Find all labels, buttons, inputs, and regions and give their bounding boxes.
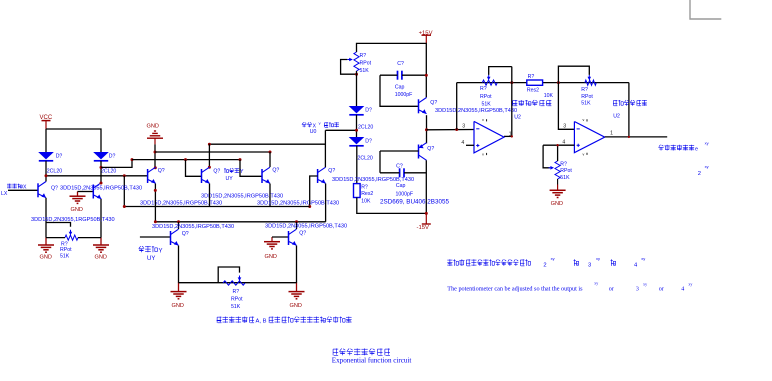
svg-text:v: v <box>482 153 484 157</box>
label R1 <box>61 242 68 248</box>
junction <box>355 129 358 132</box>
label GND g3 <box>71 207 83 213</box>
svg-text:Y: Y <box>240 169 244 175</box>
svg-text:v: v <box>583 118 585 122</box>
junction <box>45 174 48 177</box>
svg-text:GND: GND <box>551 201 563 207</box>
label LX <box>1 191 8 197</box>
junction <box>511 135 513 137</box>
svg-text:RPot: RPot <box>560 168 572 174</box>
wire R4 to -15V rail <box>357 198 427 214</box>
svg-text:v: v <box>583 153 585 157</box>
transistor LB Q7 <box>171 229 179 245</box>
wire Q6 base riser <box>310 176 318 207</box>
part row Q6 <box>257 201 339 207</box>
label D3 value <box>358 125 373 131</box>
svg-text:R?: R? <box>560 162 567 168</box>
label Q6 <box>328 168 335 174</box>
label R1 type <box>60 247 72 253</box>
label R8 type <box>560 168 572 174</box>
wire U3 pin4 <box>543 144 574 146</box>
title chinese <box>333 348 390 355</box>
label D1 <box>56 153 63 159</box>
label U2 pin1 <box>509 131 512 137</box>
svg-text:VCC: VCC <box>40 115 53 121</box>
svg-text:R?: R? <box>233 289 240 295</box>
wire diode D1 cathode to Q1 collector <box>45 161 47 182</box>
svg-text:R?: R? <box>480 86 487 92</box>
label R5 type <box>480 94 492 100</box>
label U0 <box>310 129 317 135</box>
diode D1 2CL20 <box>38 152 54 161</box>
op-amp U2 <box>474 118 504 157</box>
capacitor C1 1000pF <box>398 71 402 80</box>
wire to Q5 collector <box>269 152 271 167</box>
transistor RB Q8 <box>289 229 297 245</box>
svg-text:xy: xy <box>705 140 709 145</box>
wire LB emitter <box>178 246 180 284</box>
svg-text:Q?: Q? <box>213 168 220 174</box>
label D2 value <box>101 169 116 175</box>
svg-text:Cap: Cap <box>396 183 406 189</box>
wire antilog out to U2 <box>427 129 475 131</box>
wire U3 pin3 riser <box>558 83 574 130</box>
wire R7 wiper loop <box>558 66 589 82</box>
svg-text:GND: GND <box>172 303 184 309</box>
svg-text:R?: R? <box>360 53 367 59</box>
svg-text:RPot: RPot <box>581 94 593 100</box>
label input X <box>7 184 27 191</box>
svg-text:D?: D? <box>109 153 116 159</box>
potentiometer R8 51K <box>549 161 561 179</box>
label U2 ref <box>514 115 521 121</box>
svg-text:51K: 51K <box>360 68 370 74</box>
wire pushpull node <box>426 115 428 143</box>
wire node A rail y176 <box>46 175 148 177</box>
svg-text:D?: D? <box>365 138 372 144</box>
label D2 <box>109 153 116 159</box>
label R2 value <box>231 304 241 310</box>
ground GND g6 <box>171 283 187 299</box>
svg-text:RPot: RPot <box>60 247 72 253</box>
ground GND g3 base of Q2 <box>70 192 86 204</box>
frame corner <box>690 0 721 19</box>
wire U0 link <box>325 129 356 131</box>
label Q10 <box>427 146 434 152</box>
resistor R4 Res2 10K <box>354 184 361 198</box>
svg-text:RPot: RPot <box>231 297 243 303</box>
svg-text:xy: xy <box>596 256 600 261</box>
svg-text:GND: GND <box>40 255 52 261</box>
label R2 type <box>231 297 243 303</box>
junction <box>425 128 428 131</box>
svg-text:2CL20: 2CL20 <box>358 125 373 131</box>
svg-text:3: 3 <box>588 262 591 268</box>
svg-text:or: or <box>609 287 614 293</box>
label Q1 <box>51 185 58 191</box>
junction <box>123 174 126 177</box>
svg-text:xy: xy <box>551 256 555 261</box>
wire tap to Q4 base <box>186 160 202 177</box>
wire U3 output <box>605 136 668 138</box>
label GND g4 <box>147 123 159 129</box>
wire node C corner <box>209 143 325 145</box>
label C1 <box>397 61 404 67</box>
label R1 value <box>60 254 70 260</box>
junction <box>208 143 211 146</box>
svg-text:C?: C? <box>397 61 404 67</box>
label U2 pin4 <box>461 140 464 146</box>
wire rail2 y221.8 <box>155 221 325 223</box>
svg-text:2SD669, BU406,2B3055: 2SD669, BU406,2B3055 <box>380 199 449 206</box>
junction <box>123 205 126 208</box>
svg-text:1000pF: 1000pF <box>396 191 414 197</box>
svg-text:Q?: Q? <box>158 168 165 174</box>
wire C1 right lead <box>402 74 426 76</box>
svg-text:4: 4 <box>562 139 565 145</box>
transistor Q5 <box>262 167 270 183</box>
svg-text:3DD15D,2N3055,1RGP50B,T430: 3DD15D,2N3055,1RGP50B,T430 <box>31 217 115 223</box>
potentiometer R3 51K <box>347 52 359 71</box>
title english <box>332 357 412 365</box>
svg-text:2CL20: 2CL20 <box>101 169 116 175</box>
part row Q9 <box>435 108 517 114</box>
svg-text:Exponential function circuit: Exponential function circuit <box>332 357 412 365</box>
svg-text:D?: D? <box>365 107 372 113</box>
junction <box>269 151 272 154</box>
wire rail y152 <box>155 151 270 153</box>
wire RB base <box>272 236 289 238</box>
note line1 chinese <box>447 256 645 268</box>
power VCC <box>40 115 53 129</box>
note multiplier chinese <box>217 317 352 325</box>
diode D3 2CL20 <box>349 106 365 115</box>
junction Q3 collector <box>154 166 157 169</box>
ground GND g7 <box>289 283 305 299</box>
transistor Q3 <box>148 167 156 183</box>
wire to Q4 collector <box>208 144 210 167</box>
label U3 ref <box>613 114 620 120</box>
svg-text:51K: 51K <box>581 101 591 107</box>
wire Q6 emitter <box>325 184 327 222</box>
capacitor C2 1000pF <box>400 168 404 177</box>
junction <box>557 81 560 84</box>
label R7 value <box>581 101 591 107</box>
svg-text:LX: LX <box>1 191 8 197</box>
svg-text:Q?: Q? <box>299 231 306 237</box>
ground GND g8 <box>550 190 566 197</box>
svg-text:3: 3 <box>563 124 566 130</box>
potentiometer R1 51K <box>46 230 101 240</box>
wire R8 to GND <box>557 179 559 190</box>
svg-text:e: e <box>695 146 698 152</box>
svg-text:51K: 51K <box>231 304 241 310</box>
svg-text:xy: xy <box>643 282 647 287</box>
label input Y <box>224 168 244 175</box>
part row Q2 <box>31 217 115 223</box>
svg-text:1: 1 <box>509 131 512 137</box>
svg-text:Q?: Q? <box>272 168 279 174</box>
svg-text:3DD15D,2N3055,IRGP50B,T430: 3DD15D,2N3055,IRGP50B,T430 <box>265 224 347 230</box>
label LB <box>182 231 189 237</box>
svg-text:51K: 51K <box>60 254 70 260</box>
svg-text:RPot: RPot <box>480 94 492 100</box>
svg-text:xy: xy <box>705 164 709 169</box>
part row Q10 <box>380 199 449 206</box>
label UY lower <box>147 256 155 262</box>
part row RB <box>265 224 347 230</box>
op-amp U3 <box>574 118 604 156</box>
ground GND g5 base of RB <box>264 237 280 249</box>
svg-text:Q?: Q? <box>430 100 437 106</box>
label Q3 <box>158 168 165 174</box>
label C2 value <box>396 191 414 197</box>
label 2^xy <box>698 164 709 177</box>
power +15V <box>419 31 433 44</box>
label output result <box>658 140 708 152</box>
svg-text:2: 2 <box>698 171 701 177</box>
wire VCC rail <box>46 129 101 152</box>
wire pot R1 wiper tap <box>46 223 71 227</box>
svg-text:UY: UY <box>226 176 234 182</box>
junction <box>308 205 311 208</box>
label output X^Y <box>302 122 339 129</box>
wire diode D2 cathode to Q2 collector <box>100 161 102 183</box>
svg-text:3DD15D,2N3055,IRGP50B,T430: 3DD15D,2N3055,IRGP50B,T430 <box>435 108 517 114</box>
label D4 <box>365 138 372 144</box>
svg-text:3: 3 <box>462 124 465 130</box>
label R4 <box>361 185 368 191</box>
junction <box>154 189 157 192</box>
wire C2 left lead <box>380 172 400 174</box>
svg-text:2CL20: 2CL20 <box>47 169 62 175</box>
label R6 value <box>544 93 554 99</box>
wire Q6 collector riser <box>324 130 326 167</box>
note line2 english <box>447 281 692 293</box>
label D4 value <box>358 156 373 162</box>
svg-text:3: 3 <box>636 287 639 293</box>
label R6 type <box>527 88 539 94</box>
svg-text:Cap: Cap <box>395 85 405 91</box>
label RB <box>299 231 306 237</box>
label R6 <box>528 74 535 80</box>
label R5 <box>480 86 487 92</box>
label GND g1 <box>40 255 52 261</box>
part row LB <box>152 224 234 230</box>
svg-text:D?: D? <box>56 153 63 159</box>
wire RB emitter <box>296 246 298 284</box>
wire Q5 emitter <box>269 184 271 207</box>
svg-text:10K: 10K <box>361 198 371 204</box>
label R8 <box>560 162 567 168</box>
junction <box>131 158 134 161</box>
svg-text:or: or <box>659 287 664 293</box>
svg-text:GND: GND <box>290 303 302 309</box>
junction <box>100 166 103 169</box>
wire R5 wiper loop <box>489 67 512 75</box>
junction <box>154 151 157 154</box>
label C2 name <box>396 183 406 189</box>
wire C2 right lead <box>404 172 426 174</box>
ground GND g4 inverted <box>147 131 163 144</box>
potentiometer R7 51K <box>585 75 596 85</box>
svg-text:U2: U2 <box>613 114 620 120</box>
svg-text:2: 2 <box>543 262 546 268</box>
wire tap to Q5 base <box>240 160 262 177</box>
junction <box>184 158 187 161</box>
part row Q1 <box>60 186 142 192</box>
svg-text:R?: R? <box>528 74 535 80</box>
label input Y lower <box>139 246 163 255</box>
part row mid <box>332 177 414 183</box>
svg-text:R?: R? <box>361 185 368 191</box>
svg-text:Y: Y <box>159 249 163 255</box>
label R3 value <box>360 68 370 74</box>
label R5 value <box>482 101 492 107</box>
label GND g6 <box>172 303 184 309</box>
svg-text:UY: UY <box>147 256 155 262</box>
svg-text:2CL20: 2CL20 <box>358 156 373 162</box>
svg-text:Q?: Q? <box>51 185 58 191</box>
wire diode chain mid <box>356 115 358 137</box>
junction <box>355 73 358 76</box>
label U3 pin4 <box>562 139 565 145</box>
label Q4 <box>213 168 220 174</box>
label GND g7 <box>290 303 302 309</box>
wire Q10 collector <box>425 160 427 213</box>
wire feedback rail <box>457 82 629 84</box>
junction <box>100 182 103 185</box>
label U2 pin3 <box>462 124 465 130</box>
junction <box>556 144 558 146</box>
svg-text:xy: xy <box>594 281 598 286</box>
wire node B rail y159.6 <box>132 159 240 161</box>
label D3 <box>365 107 372 113</box>
svg-text:1: 1 <box>610 130 613 136</box>
svg-text:xy: xy <box>641 256 645 261</box>
wire node B elbow <box>101 160 132 168</box>
transistor Q4 <box>202 167 210 183</box>
wire U2 feedback riser <box>456 83 458 130</box>
junction <box>425 74 428 77</box>
wire Q1 base <box>8 189 38 191</box>
label R3 type <box>360 61 372 67</box>
label buffer2 <box>613 100 647 106</box>
label R7 type <box>581 94 593 100</box>
wire emitter rail y206.5 <box>124 206 309 208</box>
svg-text:U0: U0 <box>310 129 317 135</box>
wire Q10 base <box>380 150 419 152</box>
wire LB collector <box>178 222 180 229</box>
label GND g5 <box>265 254 277 260</box>
wire +15V rail <box>357 43 427 97</box>
svg-text:GND: GND <box>147 123 159 129</box>
label buffer1 <box>512 100 551 106</box>
wire R8 top lead <box>557 145 559 161</box>
transistor Q10 lower PNP <box>419 143 427 161</box>
junction <box>510 81 513 84</box>
svg-text:3DD15D,2N3055,IRGP50B,T430: 3DD15D,2N3055,IRGP50B,T430 <box>152 224 234 230</box>
svg-text:RPot: RPot <box>360 61 372 67</box>
svg-text:GND: GND <box>265 254 277 260</box>
potentiometer R5 51K <box>482 75 497 85</box>
part row Q3 <box>140 200 222 206</box>
transistor Q6 <box>318 167 326 183</box>
wire to U3 output <box>628 83 630 137</box>
svg-text:Res2: Res2 <box>361 191 373 197</box>
label C1 name <box>395 85 405 91</box>
wire Q2 emitter <box>100 199 102 238</box>
label GND g8 <box>551 201 563 207</box>
svg-text:v: v <box>482 118 484 122</box>
resistor R6 Res2 10K <box>527 80 543 85</box>
wire riser x124 <box>123 176 125 207</box>
junction Q4 collector <box>208 166 211 169</box>
part row Q4 Q5 <box>201 193 283 199</box>
wire emitter rail3 y282.7 <box>179 282 297 284</box>
junction <box>455 128 458 131</box>
svg-text:1000pF: 1000pF <box>395 92 413 98</box>
ground GND g2 <box>93 238 109 253</box>
label D1 value <box>47 169 62 175</box>
wire x155 vertical <box>154 144 156 167</box>
label C1 value <box>395 92 413 98</box>
wire diode chain to R4 <box>356 146 358 184</box>
svg-text:-15V: -15V <box>417 225 430 231</box>
label U3 pin3 <box>563 124 566 130</box>
svg-text:Q?: Q? <box>328 168 335 174</box>
wire U2 pin4 stub <box>466 144 474 146</box>
svg-text:51K: 51K <box>482 101 492 107</box>
svg-text:Res2: Res2 <box>527 88 539 94</box>
label R3 <box>360 53 367 59</box>
diode D4 2CL20 <box>349 137 365 146</box>
svg-text:xy: xy <box>688 282 692 287</box>
wire U2 output stub <box>504 135 512 137</box>
wire R3 wiper loop <box>341 60 357 75</box>
wire RB collector <box>296 222 298 229</box>
svg-text:3DD15D,2N3055,IRGP50B,T430: 3DD15D,2N3055,IRGP50B,T430 <box>201 193 283 199</box>
label Q5 <box>272 168 279 174</box>
svg-text:The potentiometer can be adjus: The potentiometer can be adjusted so tha… <box>447 286 583 293</box>
potentiometer R2 51K <box>223 276 245 286</box>
wire C1 left lead <box>380 74 397 76</box>
junction <box>295 220 298 223</box>
wire pot R2 wiper tap <box>218 267 239 283</box>
svg-text:3DD15D,2N3055,IRGP50B,T430: 3DD15D,2N3055,IRGP50B,T430 <box>60 186 142 192</box>
label GND g2 <box>95 255 107 261</box>
svg-text:4: 4 <box>461 140 464 146</box>
ground GND g1 <box>38 238 54 253</box>
wire C1 riser to Q9 base <box>380 75 419 106</box>
junction <box>628 136 630 138</box>
transistor Q9 upper NPN <box>419 98 427 114</box>
transistor Q1 <box>38 182 46 198</box>
label U3 pin1 <box>610 130 613 136</box>
label UY <box>226 176 234 182</box>
transistor Q2 <box>93 183 101 199</box>
wire Q1 emitter <box>45 198 47 238</box>
wire Q3 emitter <box>154 184 156 222</box>
junction <box>154 220 157 223</box>
svg-text:Y: Y <box>318 122 321 126</box>
svg-text:51K: 51K <box>560 175 570 181</box>
wire Q2 base <box>78 191 94 193</box>
junction <box>425 212 428 215</box>
label C2 <box>396 163 403 169</box>
svg-text:R?: R? <box>581 87 588 93</box>
svg-text:3DD15D,2N3055,IRGP50B,T430: 3DD15D,2N3055,IRGP50B,T430 <box>257 201 339 207</box>
